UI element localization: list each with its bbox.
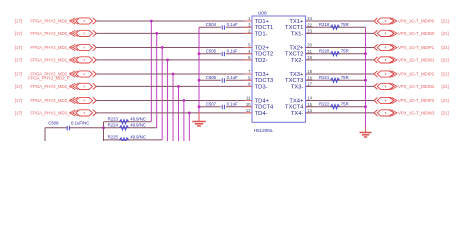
svg-text:14: 14: [307, 96, 312, 101]
ground (TXCT common): [360, 127, 372, 137]
junction FPGA_PHY2_MD0_N drop: [155, 32, 158, 35]
junction FPGA_PHY2_MD2_P drop: [172, 73, 175, 76]
svg-text:TX3-: TX3-: [291, 84, 304, 90]
wire R224 row: [104, 127, 157, 129]
pin 23 TX1-: [291, 29, 313, 38]
wire FPGA_PHY2_MD0_N vertical drop: [156, 33, 158, 127]
svg-text:24: 24: [307, 16, 312, 21]
pin 22 TXCT1: [285, 22, 313, 31]
svg-text:[17]: [17]: [15, 111, 22, 116]
off-page connector VPX_1G-T_MDIN2 [21]: [374, 83, 449, 89]
wire TXCT3: [306, 79, 366, 81]
capacitor C507 0.1uF: [206, 102, 238, 110]
svg-text:FPGA_PHY2_MD2_N: FPGA_PHY2_MD2_N: [30, 84, 72, 89]
svg-text:[17]: [17]: [15, 72, 22, 77]
resistor R220 75R: [319, 48, 349, 55]
svg-text:21: 21: [307, 49, 312, 54]
svg-text:FPGA_PHY2_MD3_N: FPGA_PHY2_MD3_N: [30, 111, 72, 116]
svg-text:[17]: [17]: [15, 84, 22, 89]
wire FPGA_PHY2_MD1_N vertical drop: [167, 60, 169, 141]
junction FPGA_PHY2_MD3_N drop: [188, 112, 191, 115]
wire FPGA_PHY2_MD0_P vertical drop: [150, 21, 152, 122]
pin 5 TD2+: [245, 43, 270, 52]
resistor R222 75R: [319, 101, 349, 108]
svg-text:16: 16: [307, 75, 312, 80]
pin 6 TD2-: [245, 55, 268, 64]
svg-text:[21]: [21]: [442, 45, 449, 50]
wire C508 drop: [44, 128, 46, 141]
svg-text:11: 11: [246, 96, 251, 101]
capacitor C508 0.1uF/NC: [48, 120, 89, 130]
svg-text:[17]: [17]: [15, 45, 22, 50]
wire FPGA_PHY2_MD3_N vertical drop: [188, 113, 190, 141]
svg-text:23: 23: [307, 29, 312, 34]
resistor R218 75R: [319, 22, 349, 29]
pin 16 TXCT3: [285, 75, 313, 84]
svg-text:FPGA_PHY2_MD2_P: FPGA_PHY2_MD2_P: [28, 76, 70, 81]
svg-text:13: 13: [307, 108, 312, 113]
off-page connector FPGA_PHY2_MD0_P [17]: [15, 18, 97, 24]
wire FPGA_PHY2_MD2_N vertical drop: [177, 86, 179, 141]
svg-text:VPX_1G-T_MDIP2: VPX_1G-T_MDIP2: [398, 72, 435, 77]
pin 21 TXCT2: [285, 49, 313, 58]
off-page connector VPX_1G-T_MDIP1 [21]: [374, 44, 449, 50]
svg-text:R222: R222: [319, 101, 330, 106]
junction FPGA_PHY2_MD1_N drop: [166, 59, 169, 62]
svg-text:FPGA_PHY2_MD3_P: FPGA_PHY2_MD3_P: [30, 98, 72, 103]
svg-text:VPX_1G-T_MDIN0: VPX_1G-T_MDIN0: [398, 31, 435, 36]
svg-text:TDCT4: TDCT4: [255, 105, 274, 111]
junction TXCT3: [364, 79, 367, 82]
svg-text:0.1uF: 0.1uF: [227, 22, 238, 27]
pin 9 TDCT3: [245, 75, 274, 84]
pin 4 TDCT2: [245, 49, 274, 58]
svg-text:75R: 75R: [341, 101, 349, 106]
wire VPX_1G-T_MDIN2: [306, 85, 375, 87]
svg-text:[17]: [17]: [15, 19, 22, 24]
junction FPGA_PHY2_MD0_P drop: [150, 20, 153, 23]
svg-text:TX1+: TX1+: [289, 19, 304, 25]
pin 20 TX2+: [289, 43, 313, 52]
svg-text:TX4-: TX4-: [291, 111, 304, 117]
svg-text:[21]: [21]: [442, 72, 449, 77]
svg-text:TD3+: TD3+: [255, 72, 270, 78]
off-page connector VPX_1G-T_MDIP3 [21]: [374, 97, 449, 103]
svg-text:C505: C505: [206, 49, 217, 54]
svg-text:R223: R223: [108, 116, 119, 121]
off-page connector VPX_1G-T_MDIP0 [21]: [374, 18, 449, 24]
svg-text:TD1+: TD1+: [255, 19, 270, 25]
svg-text:[17]: [17]: [15, 58, 22, 63]
svg-text:TDCT3: TDCT3: [255, 78, 274, 84]
pin 10 TDCT4: [245, 102, 275, 111]
svg-text:[21]: [21]: [442, 111, 449, 116]
svg-text:TXCT4: TXCT4: [285, 105, 304, 111]
off-page connector FPGA_PHY2_MD3_P [17]: [15, 97, 97, 103]
svg-text:49.9/NC: 49.9/NC: [130, 116, 146, 121]
svg-text:[21]: [21]: [442, 31, 449, 36]
duplicate net label FPGA_PHY2_MD2_P: [28, 76, 70, 81]
pin 11 TD4+: [245, 96, 270, 105]
capacitor C504 0.1uF: [206, 22, 238, 30]
junction FPGA_PHY2_MD1_P drop: [161, 46, 164, 49]
svg-text:TX2+: TX2+: [289, 46, 304, 52]
ground (TDCT common): [192, 112, 206, 126]
svg-text:FPGA_PHY2_MD0_N: FPGA_PHY2_MD0_N: [30, 31, 72, 36]
svg-text:TXCT2: TXCT2: [285, 52, 303, 58]
svg-text:TD2-: TD2-: [255, 58, 268, 64]
svg-text:18: 18: [307, 69, 312, 74]
resistor R221 75R: [319, 75, 349, 82]
svg-text:[21]: [21]: [442, 84, 449, 89]
svg-text:VPX_1G-T_MDIN2: VPX_1G-T_MDIN2: [398, 84, 435, 89]
wire R225 row: [104, 139, 163, 141]
svg-text:20: 20: [307, 43, 312, 48]
svg-text:75R: 75R: [341, 48, 349, 53]
svg-text:R220: R220: [319, 48, 330, 53]
off-page connector FPGA_PHY2_MD0_N [17]: [15, 30, 97, 36]
svg-text:TDCT2: TDCT2: [255, 52, 274, 58]
svg-text:TD1-: TD1-: [255, 31, 268, 37]
wire FPGA_PHY2_MD3_N: [96, 112, 253, 114]
junction TDCT4: [198, 105, 201, 108]
off-page connector FPGA_PHY2_MD3_N [17]: [15, 110, 97, 116]
wire TXCT2: [306, 53, 366, 55]
wire VPX_1G-T_MDIP3: [306, 100, 375, 102]
wire FPGA_PHY2_MD1_N: [96, 59, 253, 61]
svg-text:15: 15: [307, 102, 312, 107]
wire VPX_1G-T_MDIP0: [306, 20, 375, 22]
svg-text:C507: C507: [206, 102, 217, 107]
svg-text:TX4+: TX4+: [289, 99, 304, 105]
wire TXCT4: [306, 106, 366, 108]
pin 24 TX1+: [289, 16, 313, 25]
wire TDCT4: [199, 106, 252, 108]
pin 18 TX3+: [289, 69, 313, 78]
resistor R225 49.9/NC: [108, 135, 146, 142]
svg-text:12: 12: [246, 108, 251, 113]
svg-text:U08: U08: [258, 10, 267, 16]
svg-text:R224: R224: [108, 123, 119, 128]
svg-text:75R: 75R: [341, 75, 349, 80]
off-page connector VPX_1G-T_MDIN1 [21]: [374, 57, 449, 63]
svg-text:[21]: [21]: [442, 58, 449, 63]
svg-text:19: 19: [307, 55, 312, 60]
capacitor C505 0.1uF: [206, 49, 238, 57]
wire VPX_1G-T_MDIN1: [306, 59, 375, 61]
wire FPGA_PHY2_MD3_P: [96, 100, 253, 102]
wire TDCT3: [199, 79, 252, 81]
svg-text:[21]: [21]: [442, 19, 449, 24]
wire VPX_1G-T_MDIN3: [306, 112, 375, 114]
junction TDCT3: [198, 79, 201, 82]
resistor R223 49.9/NC: [108, 116, 146, 123]
svg-text:49.9/NC: 49.9/NC: [130, 135, 146, 140]
svg-text:TX1-: TX1-: [291, 31, 304, 37]
wire TDCT common vertical: [198, 27, 200, 112]
svg-text:R218: R218: [319, 22, 330, 27]
svg-text:C506: C506: [206, 75, 217, 80]
pin 7 TD3+: [245, 69, 270, 78]
pin 1 TD1+: [245, 16, 270, 25]
wire FPGA_PHY2_MD2_N: [96, 85, 253, 87]
wire FPGA_PHY2_MD0_N: [96, 32, 253, 34]
svg-text:TX2-: TX2-: [291, 58, 304, 64]
svg-text:[17]: [17]: [15, 98, 22, 103]
resistor R224 49.9/NC: [108, 123, 146, 130]
svg-text:TD4+: TD4+: [255, 99, 270, 105]
svg-text:TD2+: TD2+: [255, 46, 270, 52]
wire FPGA_PHY2_MD0_P: [96, 20, 253, 22]
svg-text:TXCT1: TXCT1: [285, 25, 303, 31]
svg-text:TDCT1: TDCT1: [255, 25, 274, 31]
wire TXCT common vertical: [365, 27, 367, 127]
svg-text:[21]: [21]: [442, 98, 449, 103]
junction TXCT2: [364, 52, 367, 55]
wire TXCT1: [306, 26, 366, 28]
junction TDCT2: [198, 52, 201, 55]
svg-text:0.1uF/NC: 0.1uF/NC: [71, 120, 89, 125]
svg-text:VPX_1G-T_MDIP1: VPX_1G-T_MDIP1: [398, 45, 435, 50]
pin 3 TDCT1: [245, 22, 274, 31]
svg-text:FPGA_PHY2_MD0_P: FPGA_PHY2_MD0_P: [30, 19, 72, 24]
svg-text:VPX_1G-T_MDIN1: VPX_1G-T_MDIN1: [398, 58, 435, 63]
svg-text:VPX_1G-T_MDIP3: VPX_1G-T_MDIP3: [398, 98, 435, 103]
wire C508 net: [45, 127, 104, 129]
part number H5120NL: [254, 128, 274, 133]
svg-text:C504: C504: [206, 22, 217, 27]
wire TDCT1: [199, 26, 252, 28]
wire VPX_1G-T_MDIP1: [306, 47, 375, 49]
off-page connector VPX_1G-T_MDIN0 [21]: [374, 30, 449, 36]
svg-text:R221: R221: [319, 75, 330, 80]
wire FPGA_PHY2_MD1_P vertical drop: [161, 48, 163, 140]
junction termination node: [102, 126, 105, 129]
wire R223 row: [104, 121, 152, 123]
junction FPGA_PHY2_MD3_P drop: [182, 99, 185, 102]
junction FPGA_PHY2_MD2_N drop: [177, 85, 180, 88]
transformer U08 (body): [252, 10, 306, 122]
pin 14 TX4+: [289, 96, 313, 105]
svg-text:0.1uF: 0.1uF: [227, 75, 238, 80]
svg-text:TD3-: TD3-: [255, 84, 268, 90]
wire TDCT2: [199, 53, 252, 55]
wire FPGA_PHY2_MD2_P: [96, 73, 253, 75]
off-page connector FPGA_PHY2_MD2_P [17]: [15, 71, 97, 77]
wire VPX_1G-T_MDIN0: [306, 32, 375, 34]
off-page connector VPX_1G-T_MDIP2 [21]: [374, 71, 449, 77]
svg-text:TXCT3: TXCT3: [285, 78, 303, 84]
pin 2 TD1-: [245, 29, 268, 38]
svg-text:C508: C508: [48, 120, 59, 125]
svg-text:FPGA_PHY2_MD1_N: FPGA_PHY2_MD1_N: [30, 58, 72, 63]
svg-text:VPX_1G-T_MDIN3: VPX_1G-T_MDIN3: [398, 111, 435, 116]
off-page connector FPGA_PHY2_MD2_N [17]: [15, 83, 97, 89]
svg-text:10: 10: [246, 102, 251, 107]
svg-text:FPGA_PHY2_MD1_P: FPGA_PHY2_MD1_P: [30, 45, 72, 50]
pin 17 TX3-: [291, 82, 313, 91]
svg-text:49.9/NC: 49.9/NC: [130, 123, 146, 128]
wire FPGA_PHY2_MD2_P vertical drop: [172, 74, 174, 141]
pin 19 TX2-: [291, 55, 313, 64]
svg-text:22: 22: [307, 22, 312, 27]
off-page connector VPX_1G-T_MDIN3 [21]: [374, 110, 449, 116]
svg-text:0.1uF: 0.1uF: [227, 49, 238, 54]
wire FPGA_PHY2_MD3_P vertical drop: [183, 101, 185, 142]
svg-text:17: 17: [307, 82, 312, 87]
svg-text:TD4-: TD4-: [255, 111, 268, 117]
off-page connector FPGA_PHY2_MD1_P [17]: [15, 44, 97, 50]
pin 12 TD4-: [245, 108, 268, 117]
off-page connector FPGA_PHY2_MD1_N [17]: [15, 57, 97, 63]
svg-text:R225: R225: [108, 135, 119, 140]
pin 15 TXCT4: [285, 102, 313, 111]
svg-text:H5120NL: H5120NL: [254, 128, 274, 133]
svg-text:0.1uF: 0.1uF: [227, 102, 238, 107]
wire FPGA_PHY2_MD1_P: [96, 47, 253, 49]
wire termination node vertical: [103, 122, 105, 141]
pin 13 TX4-: [291, 108, 313, 117]
capacitor C506 0.1uF: [206, 75, 238, 83]
pin 8 TD3-: [245, 82, 268, 91]
svg-text:75R: 75R: [341, 22, 349, 27]
wire VPX_1G-T_MDIP2: [306, 73, 375, 75]
svg-text:[17]: [17]: [15, 31, 22, 36]
junction TXCT4: [364, 105, 367, 108]
svg-text:TX3+: TX3+: [289, 72, 304, 78]
svg-text:VPX_1G-T_MDIP0: VPX_1G-T_MDIP0: [398, 19, 435, 24]
